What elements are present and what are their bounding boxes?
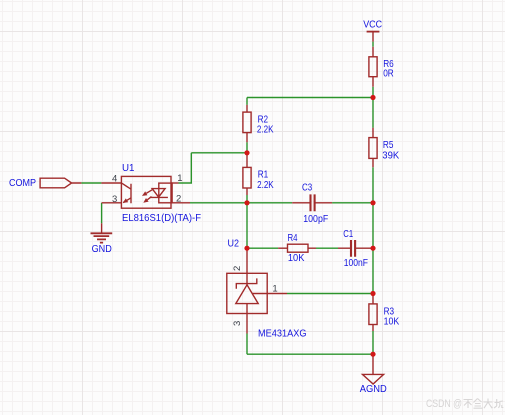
node E [370,352,375,357]
U1 light arrow 2 [147,197,151,200]
svg-text:100pF: 100pF [303,213,328,225]
U1 phototransistor emitter arrowhead [123,198,129,203]
ground AGND [363,354,384,384]
svg-text:CSDN @: CSDN @ [426,398,462,410]
U1 LED triangle [152,189,165,198]
wire node J2 to node J3 [246,203,248,248]
resistor R5 [369,138,377,159]
resistor R3 [369,304,377,325]
U1 pin 2 lead [171,202,190,204]
svg-text:R4: R4 [288,232,298,244]
node J2 [244,200,249,205]
capacitor C1 [338,247,373,249]
U2 triangle [236,285,258,304]
svg-text:0R: 0R [383,68,394,80]
U2 pin 2 lead [246,248,248,273]
svg-text:2.2K: 2.2K [257,123,274,135]
svg-text:EL816S1(D)(TA)-F: EL816S1(D)(TA)-F [122,212,201,224]
wire R2 to node J1 [246,142,248,153]
ground GND [101,223,103,233]
svg-text:C3: C3 [302,181,312,193]
svg-text:ME431AXG: ME431AXG [258,327,307,339]
svg-text:100nF: 100nF [344,257,368,269]
wire U1 pin 1 up to node J1 [179,153,248,184]
U2 cathode bar [236,278,256,288]
U2 pin 1 lead [252,293,287,295]
connector COMP flag [40,178,81,188]
node C [370,246,375,251]
U1 pin 3 lead [102,202,122,204]
svg-text:10K: 10K [288,252,305,264]
wire R6 to node A [372,87,374,98]
optocoupler U1 box [121,176,171,208]
wire VCC to R6 [372,42,374,47]
wire U2 anode to bottom rail [247,334,373,355]
wire U1 pin 3 down to GND [101,203,103,224]
svg-text:COMP: COMP [9,177,36,189]
U1 pin 1 lead [171,182,179,184]
wire R5 through nodes B and C to node D [372,167,374,293]
node J3 [244,246,249,251]
svg-text:C1: C1 [343,228,353,240]
U1 LED inner rect [159,183,172,203]
resistor R2 [243,112,251,133]
svg-text:3: 3 [232,321,243,326]
svg-text:U2: U2 [228,237,240,249]
U1 light arrow 1 [146,190,152,194]
U2 cathode stem [246,273,248,285]
node D [370,291,375,296]
svg-text:GND: GND [92,243,113,255]
svg-text:2: 2 [232,266,243,271]
wire top rail [247,98,373,105]
resistor R4 [288,244,309,252]
capacitor C3 [292,202,332,204]
U1 phototransistor [122,183,131,203]
wire node J3 to R4 [247,247,278,249]
power flag VCC [367,31,380,33]
svg-text:39K: 39K [382,149,399,161]
wire C3 to node B [332,202,373,204]
node A [370,95,375,100]
node B [370,200,375,205]
resistor R6 [369,57,377,77]
svg-text:3: 3 [112,194,117,205]
svg-text:VCC: VCC [363,18,382,30]
svg-text:1: 1 [272,283,277,294]
svg-text:2: 2 [176,194,181,205]
U2 anode lead [246,304,248,334]
wire R3 to node E [372,331,374,354]
wire R4 to C1 [316,247,338,249]
shunt regulator U2 box [227,273,267,313]
watermark CJK glyphs [464,399,504,409]
wire U2 pin 1 to node D [287,293,373,295]
wire COMP to U1 pin 4 [81,182,101,184]
svg-text:10K: 10K [384,315,400,327]
wire U1 pin 2 to C3 [190,202,292,204]
svg-text:4: 4 [112,174,117,185]
svg-text:2.2K: 2.2K [257,179,274,191]
wire node A to R5 [372,98,374,128]
svg-text:1: 1 [177,173,182,184]
svg-text:U1: U1 [122,162,135,174]
node J1 [244,150,249,155]
svg-text:AGND: AGND [360,383,387,395]
resistor R1 [243,167,251,188]
wire R1 to node J2 [246,195,248,203]
U1 pin 4 lead [101,182,121,184]
U1 LED cathode bar [150,196,168,198]
